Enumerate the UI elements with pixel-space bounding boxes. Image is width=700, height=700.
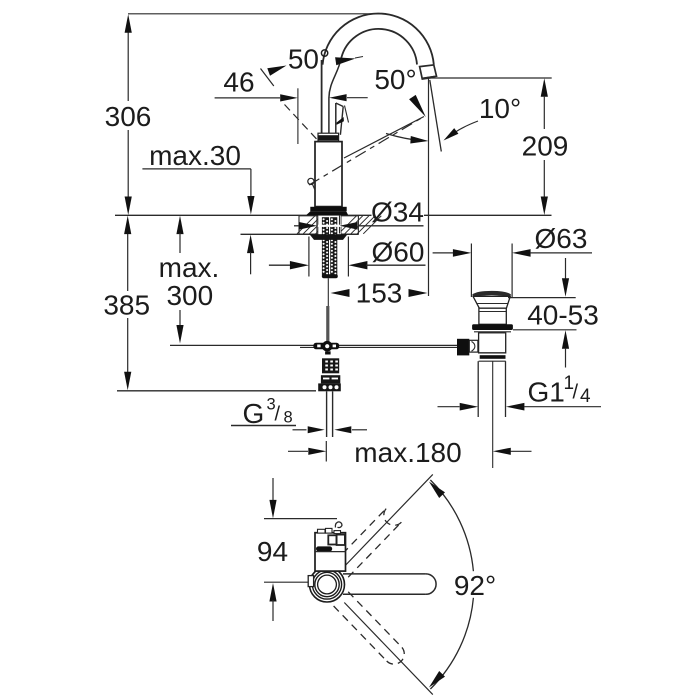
dim 46 dimension line + arrows xyxy=(215,97,280,99)
faucet riser pipe xyxy=(321,60,323,134)
dim G3/8 arrows xyxy=(293,429,307,431)
counter hatch left xyxy=(297,216,340,234)
o-ring extension line xyxy=(513,329,577,331)
svg-text:4: 4 xyxy=(580,386,591,407)
threaded shank knurled xyxy=(322,217,329,277)
Ø34 extension lines xyxy=(316,216,318,234)
svg-text:8: 8 xyxy=(284,409,293,427)
base skirt xyxy=(306,211,348,215)
92 deg arc arrowheads xyxy=(429,482,445,499)
svg-text:153: 153 xyxy=(356,278,403,309)
92 deg sector line lower xyxy=(344,603,433,695)
svg-text:max.: max. xyxy=(159,252,220,283)
Ø34 dimension arrows xyxy=(318,225,342,227)
counter hatch right xyxy=(339,216,382,234)
pop-up knob on body xyxy=(308,178,314,184)
base flange xyxy=(310,207,346,211)
drain flange xyxy=(474,293,510,296)
svg-text:46: 46 xyxy=(223,67,254,98)
94 extension lines xyxy=(264,518,337,520)
pop-up rod horizontal linkage xyxy=(170,344,457,346)
angle tick 50-left xyxy=(261,69,274,87)
dim 94 vertical + arrows xyxy=(272,478,274,501)
drain body bottom xyxy=(480,355,506,359)
counter bottom line xyxy=(241,233,359,235)
46 extension line xyxy=(297,88,299,144)
drain neck xyxy=(479,308,506,324)
Ø60 extension lines xyxy=(308,237,310,277)
spout capsule top view xyxy=(343,573,426,575)
handle lever xyxy=(335,103,337,135)
svg-text:92°: 92° xyxy=(454,570,496,601)
vertical line from outlet to counter xyxy=(428,78,430,296)
92 deg sector line upper xyxy=(344,474,433,566)
svg-text:max.30: max.30 xyxy=(149,140,241,171)
svg-text:94: 94 xyxy=(257,536,288,567)
92 deg arc xyxy=(430,480,473,571)
svg-text:/: / xyxy=(275,404,281,426)
spout axis solid line xyxy=(344,117,424,159)
cartridge collar xyxy=(318,133,339,141)
drain tailpipe xyxy=(477,361,479,417)
svg-text:10°: 10° xyxy=(479,93,521,124)
svg-text:G1: G1 xyxy=(528,377,565,408)
svg-text:Ø63: Ø63 xyxy=(535,223,588,254)
svg-text:50°: 50° xyxy=(374,64,416,95)
svg-text:300: 300 xyxy=(166,280,213,311)
dim max.180 left extension + arrows xyxy=(325,441,327,462)
spout tilt line 10deg xyxy=(430,80,442,152)
dim 40-53 down arrow xyxy=(565,258,567,279)
dim max.30 lower arrow (counter bottom) xyxy=(247,235,254,254)
flange top extension line xyxy=(508,297,576,299)
arrowhead 50-left-b xyxy=(335,57,355,65)
spout nozzle outlet xyxy=(420,65,437,79)
svg-text:50°: 50° xyxy=(288,44,330,75)
dashed swing axis line xyxy=(309,117,424,186)
body top view internal details xyxy=(328,535,336,544)
svg-text:40-53: 40-53 xyxy=(527,300,599,331)
dim 306 vertical line + arrows xyxy=(127,18,129,101)
faucet spout outer arc xyxy=(323,14,434,65)
Ø60 dimension arrows xyxy=(269,264,291,266)
dim 209 vertical + arrows xyxy=(541,78,548,97)
dim max.300 vertical + arrows xyxy=(176,216,183,235)
dashed spout position lower xyxy=(334,606,387,661)
svg-text:Ø60: Ø60 xyxy=(372,236,425,267)
faucet spout inner arc xyxy=(341,29,417,65)
mounting lug left xyxy=(308,576,313,587)
svg-text:/: / xyxy=(573,382,579,404)
supply hose upper xyxy=(327,278,329,306)
countertop line xyxy=(115,214,372,216)
angle tick 50-right xyxy=(345,106,349,123)
pop-up rod vertical xyxy=(326,306,329,342)
lever tip hook top view xyxy=(335,522,342,528)
bottom reference line (hose ends) xyxy=(117,390,316,392)
faucet body top view xyxy=(315,533,346,571)
mounting nut xyxy=(310,234,348,240)
swivel rings top view xyxy=(310,567,345,602)
dashed handle swing line upper-left xyxy=(285,105,318,141)
outlet height reference line xyxy=(429,77,552,79)
dashed spout position upper xyxy=(348,522,401,577)
svg-text:385: 385 xyxy=(103,290,150,321)
drain lever block xyxy=(457,339,469,356)
Ø63 extension lines xyxy=(470,244,472,298)
arrowhead at axis crossing xyxy=(409,95,426,117)
dim 153 arrows xyxy=(331,289,350,297)
hose connection nuts G3/8 xyxy=(322,358,339,373)
10 deg leader with arrowhead xyxy=(448,121,478,138)
Ø63 dimension line + arrows xyxy=(433,252,454,254)
svg-text:G: G xyxy=(243,398,265,429)
svg-text:209: 209 xyxy=(522,130,569,161)
dim 385 vertical line + arrows xyxy=(127,219,129,291)
dim 306 top reference line xyxy=(128,13,386,15)
arc 50-right with arrowhead xyxy=(386,134,423,141)
flexible hoses xyxy=(326,391,328,437)
drain o-ring xyxy=(472,324,513,330)
svg-text:Ø34: Ø34 xyxy=(371,197,424,228)
arrowhead 50-left xyxy=(267,66,286,76)
svg-text:306: 306 xyxy=(105,101,152,132)
drain body xyxy=(479,333,506,353)
rod pivot fitting xyxy=(313,343,339,350)
dim G1 1/4 arrows xyxy=(438,406,460,408)
handle parts on body top xyxy=(318,529,326,533)
svg-text:max.180: max.180 xyxy=(354,437,461,468)
faucet body cylinder xyxy=(315,142,342,207)
dim 40-53 up arrow xyxy=(562,330,569,349)
